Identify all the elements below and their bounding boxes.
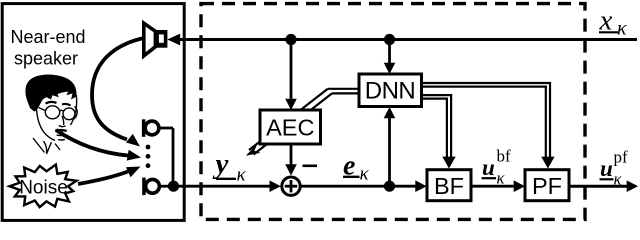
label e_k [343, 151, 370, 185]
near-end talker face clipart [25, 74, 77, 154]
svg-text:bf: bf [497, 147, 512, 166]
loudspeaker LS [144, 23, 168, 56]
noise starburst [10, 165, 77, 208]
adder (plus circle) [282, 177, 300, 195]
label minus sign [303, 165, 318, 168]
microphone M1 (top) [142, 119, 159, 137]
svg-text:κ: κ [237, 165, 247, 186]
svg-text:κ: κ [497, 169, 506, 188]
mic array dots [146, 145, 151, 150]
label y_k [213, 148, 247, 186]
node above DNN [384, 34, 395, 45]
svg-text:DNN: DNN [365, 78, 416, 105]
op block AEC U1 [260, 110, 321, 144]
svg-text:AEC: AEC [266, 115, 314, 141]
svg-text:pf: pf [614, 148, 629, 167]
dnn block U2 [359, 74, 422, 107]
svg-text:Near-end: Near-end [10, 27, 85, 47]
svg-text:y: y [213, 148, 229, 180]
wire y_k to adder [174, 185, 272, 188]
double-line wire DNN to PF [422, 83, 555, 169]
adaptive-filter double-line arrow (DNN to AEC) [246, 89, 360, 156]
node above AEC [285, 34, 296, 45]
svg-text:Noise: Noise [19, 178, 68, 199]
svg-text:κ: κ [614, 170, 623, 189]
echo path curved arrow (loudspeaker to mics) [92, 38, 144, 147]
svg-text:κ: κ [360, 164, 370, 185]
svg-text:u: u [482, 155, 495, 180]
wire e_k (adder to BF) [300, 185, 417, 188]
wire u_pf (output) [569, 185, 628, 188]
svg-text:κ: κ [617, 18, 627, 40]
svg-text:u: u [600, 156, 613, 181]
node e_k below DNN [384, 181, 395, 192]
bf block U3 [427, 170, 471, 201]
double-line wire DNN to BF [422, 95, 456, 168]
svg-text:BF: BF [434, 173, 464, 199]
svg-text:speaker: speaker [14, 49, 78, 69]
node mic junction [168, 181, 179, 192]
wire top line to AEC [290, 40, 293, 101]
wire u_bf (BF to PF) [471, 185, 516, 188]
svg-text:PF: PF [532, 173, 562, 199]
dashed processing box [201, 4, 585, 220]
wire x_k (far-end signal, top line) [176, 38, 637, 41]
pf block U4 [525, 170, 569, 201]
wire AEC to adder [290, 144, 293, 166]
speech curved arrow (speaker to mics) [56, 130, 141, 161]
microphone M2 (bottom) [142, 178, 159, 196]
wire top line to DNN [388, 40, 391, 65]
near-end room box [2, 4, 184, 221]
label u_k^pf [600, 156, 623, 189]
label x_k [599, 5, 628, 40]
wire mic bus [160, 128, 173, 186]
noise curved arrow (noise to mics) [78, 167, 141, 185]
wire e_k to DNN [388, 117, 391, 186]
label u_k^bf [482, 155, 506, 188]
